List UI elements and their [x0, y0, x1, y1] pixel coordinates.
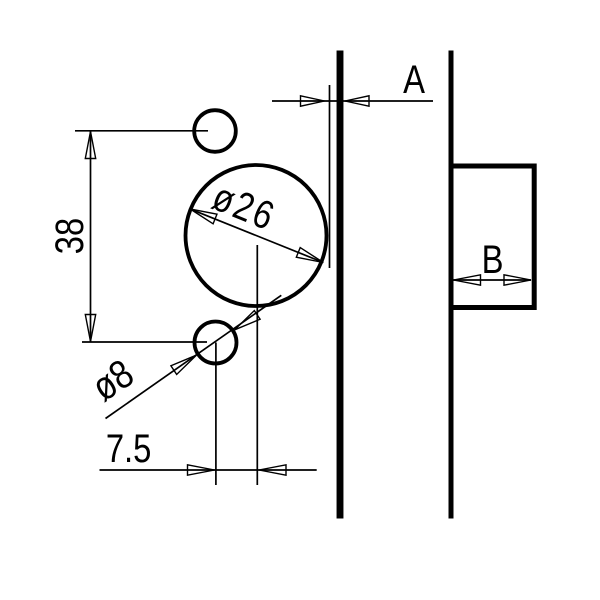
svg-text:B: B — [482, 237, 504, 282]
dimension 7.5: dimension line — [100, 469, 317, 471]
dimension 38: bottom arrow (points down) — [85, 315, 95, 342]
svg-text:7.5: 7.5 — [106, 426, 152, 471]
dimension 38: top extension line — [75, 130, 208, 132]
dimension A: extension line at circle edge — [329, 85, 331, 268]
cup hole circle (Ø26) — [186, 165, 327, 306]
dimension A: right arrow — [345, 96, 369, 106]
dimension 7.5: extension line from small hole centre — [215, 343, 217, 486]
svg-text:38: 38 — [47, 218, 92, 254]
panel edge line right (thick vertical) — [449, 51, 454, 519]
dimension 7.5: left arrow (points right) — [188, 465, 215, 475]
dimension 7.5: right arrow (points left) — [259, 465, 286, 475]
top screw hole circle — [194, 110, 236, 152]
dimension Ø8: leader line — [106, 295, 282, 418]
bottom screw hole circle (Ø8) — [195, 322, 237, 364]
dimension B: right arrow (points right) — [504, 275, 531, 285]
dimension Ø8: upper-right arrow (points down-left) — [232, 311, 260, 335]
dimension 38: bottom extension line — [82, 341, 207, 343]
dimension B: dimension line — [454, 279, 532, 281]
side-view cup recess rectangle — [451, 166, 534, 308]
panel edge line left (thick vertical) — [337, 51, 344, 519]
dimension Ø26: lower-right arrow — [296, 248, 325, 268]
dimension A: dimension line — [272, 100, 433, 102]
svg-text:A: A — [403, 57, 425, 102]
dimension B: left arrow (points left) — [454, 275, 481, 285]
dimension A: left arrow — [301, 96, 325, 106]
dimension Ø26: upper-left arrow — [188, 204, 217, 224]
dimension 38: dimension line — [90, 131, 92, 342]
dimension 38: top arrow (points up) — [85, 132, 95, 159]
dimension Ø26: diametral dimension line — [190, 209, 323, 263]
dimension Ø8: lower-left arrow (points up-right) — [171, 351, 199, 375]
dimension 7.5: extension line from cup centre — [256, 245, 258, 485]
